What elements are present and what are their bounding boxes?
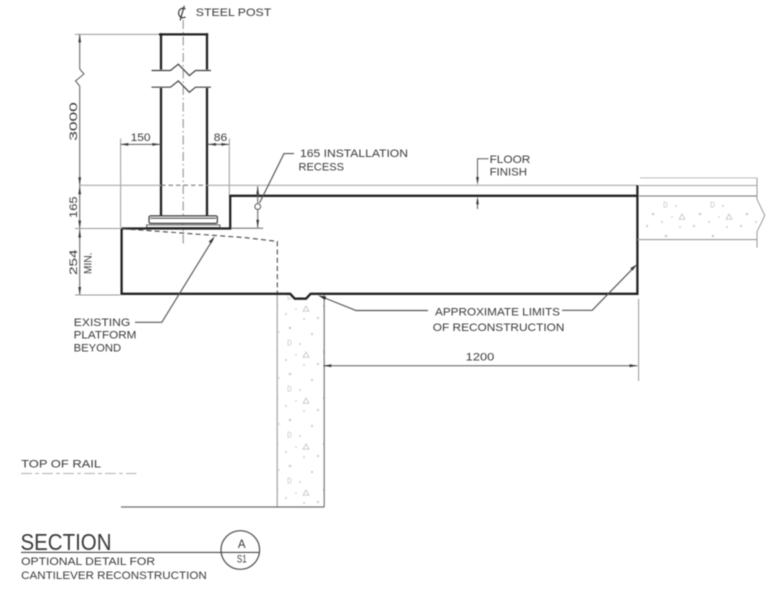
svg-text:FLOOR: FLOOR <box>490 154 531 166</box>
top of rail line (dash-dot) <box>21 473 137 475</box>
base plate shim <box>147 225 220 228</box>
svg-text:RECESS: RECESS <box>299 161 345 173</box>
svg-text:1200: 1200 <box>466 352 495 364</box>
extension line at top of post <box>75 33 159 35</box>
svg-text:CANTILEVER RECONSTRUCTION: CANTILEVER RECONSTRUCTION <box>21 570 207 582</box>
svg-text:BEYOND: BEYOND <box>74 342 122 354</box>
svg-text:165 INSTALLATION: 165 INSTALLATION <box>300 148 408 160</box>
wall left edge <box>276 295 278 507</box>
existing slab bottom (right) <box>637 239 757 241</box>
svg-text:3000: 3000 <box>68 102 80 141</box>
extension line at slab bottom left <box>75 294 120 296</box>
centerline of steel post <box>182 20 184 246</box>
existing floor finish line (right) <box>640 177 757 179</box>
extension tick at recess floor right <box>231 227 263 229</box>
svg-text:SECTION: SECTION <box>21 529 112 555</box>
svg-text:FINISH: FINISH <box>490 166 527 178</box>
floor finish leader <box>478 159 489 181</box>
dimension line column (3000/165/254) <box>76 34 85 295</box>
section marker circle A/S1 <box>221 531 260 570</box>
leader for 165 installation recess <box>260 154 295 203</box>
extension line right of 1200 dim <box>638 299 640 381</box>
svg-text:A: A <box>238 539 246 551</box>
leader APPROXIMATE LIMITS right arm <box>562 266 636 311</box>
svg-text:254: 254 <box>68 250 80 276</box>
svg-text:STEEL POST: STEEL POST <box>196 7 272 19</box>
recess 165 dimension with circle <box>255 186 261 228</box>
floor finish line continuation (right) <box>639 185 757 187</box>
extension line right of 86 dim (recess wall corner) <box>228 139 230 195</box>
existing slab break line (right end) <box>757 178 765 248</box>
base plate inner line <box>150 217 216 219</box>
svg-text:86: 86 <box>214 132 227 144</box>
dimension arrows on left column <box>78 34 81 295</box>
title underline <box>21 551 260 553</box>
dim 150 <box>120 143 160 145</box>
slab outline (reconstructed platform) <box>122 185 638 298</box>
post break symbol upper <box>152 64 212 75</box>
svg-text:150: 150 <box>131 132 151 144</box>
wall hatch fill <box>278 295 324 507</box>
existing slab top (right) <box>639 195 757 197</box>
dim 86 <box>208 143 229 145</box>
svg-text:165: 165 <box>68 196 80 218</box>
wall right edge <box>323 295 325 507</box>
leader EXISTING PLATFORM BEYOND <box>135 239 213 322</box>
extension line at recess floor left <box>75 228 120 230</box>
svg-text:S1: S1 <box>237 553 247 565</box>
base plate top plate <box>149 216 217 224</box>
svg-text:PLATFORM: PLATFORM <box>74 329 137 341</box>
svg-text:APPROXIMATE LIMITS: APPROXIMATE LIMITS <box>435 307 560 319</box>
existing slab hatch fill <box>639 197 757 239</box>
svg-text:MIN.: MIN. <box>83 252 95 274</box>
floor finish lower arrow <box>476 196 479 204</box>
svg-text:EXISTING: EXISTING <box>74 317 131 329</box>
existing platform hidden outline (dashed) <box>122 229 277 293</box>
ground line at wall base <box>121 506 324 508</box>
dim 1200 <box>323 365 637 367</box>
post break symbol lower <box>152 81 212 92</box>
centre line symbol <box>179 6 186 21</box>
svg-text:TOP OF RAIL: TOP OF RAIL <box>21 458 101 470</box>
extension line left of 150 dim (recess corner) <box>120 139 122 229</box>
steel post <box>159 33 208 216</box>
svg-text:OF RECONSTRUCTION: OF RECONSTRUCTION <box>433 322 565 334</box>
svg-text:OPTIONAL DETAIL FOR: OPTIONAL DETAIL FOR <box>21 556 155 568</box>
leader APPROXIMATE LIMITS left arm <box>322 297 428 311</box>
floor finish line <box>80 184 161 186</box>
